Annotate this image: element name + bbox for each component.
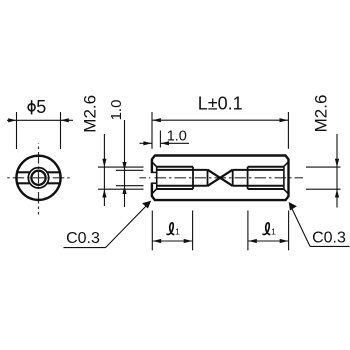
dimension φ5: left extension line	[16, 112, 18, 149]
side view: thread major top line right	[248, 166, 284, 168]
end view: slot upper line right segment	[47, 171, 60, 173]
dimension L±0.1: right extension line	[287, 112, 289, 149]
dimension 1.0 left: dimension line shaft	[124, 120, 126, 207]
chamfer note C0.3 left: arrowhead	[142, 201, 151, 209]
end view: slot upper line left segment	[17, 171, 30, 173]
dimension φ5: left arrowhead	[8, 118, 16, 122]
dimension ℓ1 right: left arrowhead	[248, 239, 256, 243]
dimension L±0.1: left extension line	[151, 112, 153, 149]
dimension 1.0 top: left tail line	[140, 142, 152, 144]
dimension ℓ1 left: right arrowhead	[184, 239, 193, 243]
end view: vertical center line	[38, 143, 40, 215]
side view: left face slot tick lower	[151, 182, 157, 184]
dimension ℓ1 right: right arrowhead	[280, 239, 289, 243]
chamfer note C0.3 right: leader diagonal	[290, 204, 311, 247]
dimension φ5: right arrowhead	[61, 118, 69, 122]
side view: hole minor top line right	[233, 169, 284, 171]
chamfer note C0.3 left: leader diagonal	[106, 202, 151, 248]
chamfer note C0.3 right: underline	[310, 245, 350, 247]
svg-text:1: 1	[175, 227, 180, 237]
side view: drill cone cross diagonal 2	[208, 170, 233, 186]
svg-text:C0.3: C0.3	[312, 230, 346, 247]
side view: hole minor bottom line left	[157, 185, 208, 187]
svg-text:5: 5	[36, 97, 46, 117]
end view: thread major arc	[28, 168, 48, 188]
dimension ℓ1 right: right extension line	[288, 211, 290, 251]
side view: hole minor top line left	[157, 169, 208, 171]
dimension ℓ1 left: left arrowhead	[153, 239, 162, 243]
side view: thread major bottom line left	[157, 188, 193, 190]
dimension φ5: dimension line	[7, 119, 73, 121]
dimension ℓ1 left: left extension line	[151, 211, 153, 251]
side view: hole minor bottom line right	[233, 185, 284, 187]
label ℓ1 left: script ell	[167, 223, 174, 235]
dimension L±0.1: right arrowhead	[280, 118, 289, 122]
dimension 1.0 top: left arrowhead	[143, 141, 151, 145]
dimension L±0.1: dimension line	[152, 119, 288, 121]
dimension M2.6 left: lower extension line	[98, 188, 144, 190]
dimension M2.6 left: upper arrowhead	[102, 159, 106, 167]
dimension 1.0 left: lower extension line	[116, 185, 144, 187]
end view: horizontal center line	[7, 177, 71, 179]
side view: left thread end vertical	[192, 167, 194, 189]
side view: left chamfer vertical	[156, 167, 158, 189]
label φ5: phi symbol stem	[31, 100, 33, 114]
side view: right thread end vertical	[247, 167, 249, 189]
svg-text:1.0: 1.0	[167, 129, 187, 145]
dimension M2.6 left: dimension line shaft	[103, 134, 105, 206]
side view: drill cone cross diagonal 1	[208, 170, 233, 186]
side view: body outline with chamfered corners	[152, 156, 289, 201]
svg-text:1.0: 1.0	[108, 100, 125, 121]
svg-text:M2.6: M2.6	[312, 95, 331, 133]
dimension 1.0 left: upper arrowhead	[122, 162, 126, 170]
end view: slot lower line right segment	[47, 182, 60, 184]
side view: left opening chamfer diagonal lower	[152, 189, 156, 194]
side view: right chamfer vertical	[283, 167, 285, 189]
dimension ℓ1 right: dimension line	[248, 240, 289, 242]
svg-text:L±0.1: L±0.1	[198, 94, 243, 114]
chamfer note C0.3 left: underline	[64, 247, 106, 249]
label ℓ1 right: script ell	[263, 223, 270, 235]
dimension 1.0 top: right tail underline	[161, 142, 189, 144]
dimension M2.6 right: upper arrowhead	[335, 159, 339, 167]
end view: outer circle (body φ5)	[16, 156, 60, 200]
side view: right drill cone base vertical	[232, 170, 234, 186]
side view: right opening chamfer diagonal upper	[284, 162, 288, 167]
dimension 1.0 top: second extension line	[159, 131, 161, 148]
chamfer note C0.3 right: arrowhead	[289, 202, 297, 211]
label φ5: phi symbol circle	[28, 104, 35, 111]
side view: left face slot tick upper	[151, 171, 157, 173]
dimension M2.6 left: upper extension line	[98, 166, 144, 168]
end view: slot lower line left segment	[17, 182, 30, 184]
side view: left face slot gap (white-out)	[150, 173, 153, 183]
dimension ℓ1 left: right extension line	[192, 211, 194, 251]
svg-text:C0.3: C0.3	[66, 230, 100, 247]
dimension 1.0 left: upper extension line	[116, 169, 144, 171]
side view: right opening chamfer diagonal lower	[284, 189, 288, 194]
dimension M2.6 right: dimension line shaft	[336, 134, 338, 208]
side view: thread major bottom line right	[248, 188, 284, 190]
dimension M2.6 right: upper extension line	[306, 166, 341, 168]
end view: thread minor hole circle	[31, 171, 45, 185]
side view: horizontal center line	[140, 177, 304, 179]
dimension 1.0 left: lower arrowhead	[122, 186, 126, 194]
dimension ℓ1 right: left extension line	[247, 211, 249, 251]
side view: thread major top line left	[157, 166, 193, 168]
dimension M2.6 right: lower extension line	[306, 188, 341, 190]
dimension L±0.1: left arrowhead	[152, 118, 161, 122]
side view: left drill cone base vertical	[207, 170, 209, 186]
svg-text:M2.6: M2.6	[81, 95, 100, 133]
dimension M2.6 left: lower arrowhead	[102, 189, 106, 197]
side view: left opening chamfer diagonal upper	[152, 162, 156, 167]
dimension φ5: right extension line	[60, 112, 62, 149]
dimension ℓ1 left: dimension line	[152, 240, 192, 242]
dimension M2.6 right: lower arrowhead	[335, 189, 339, 197]
svg-text:1: 1	[271, 227, 276, 237]
dimension 1.0 top: right arrowhead	[161, 141, 169, 145]
